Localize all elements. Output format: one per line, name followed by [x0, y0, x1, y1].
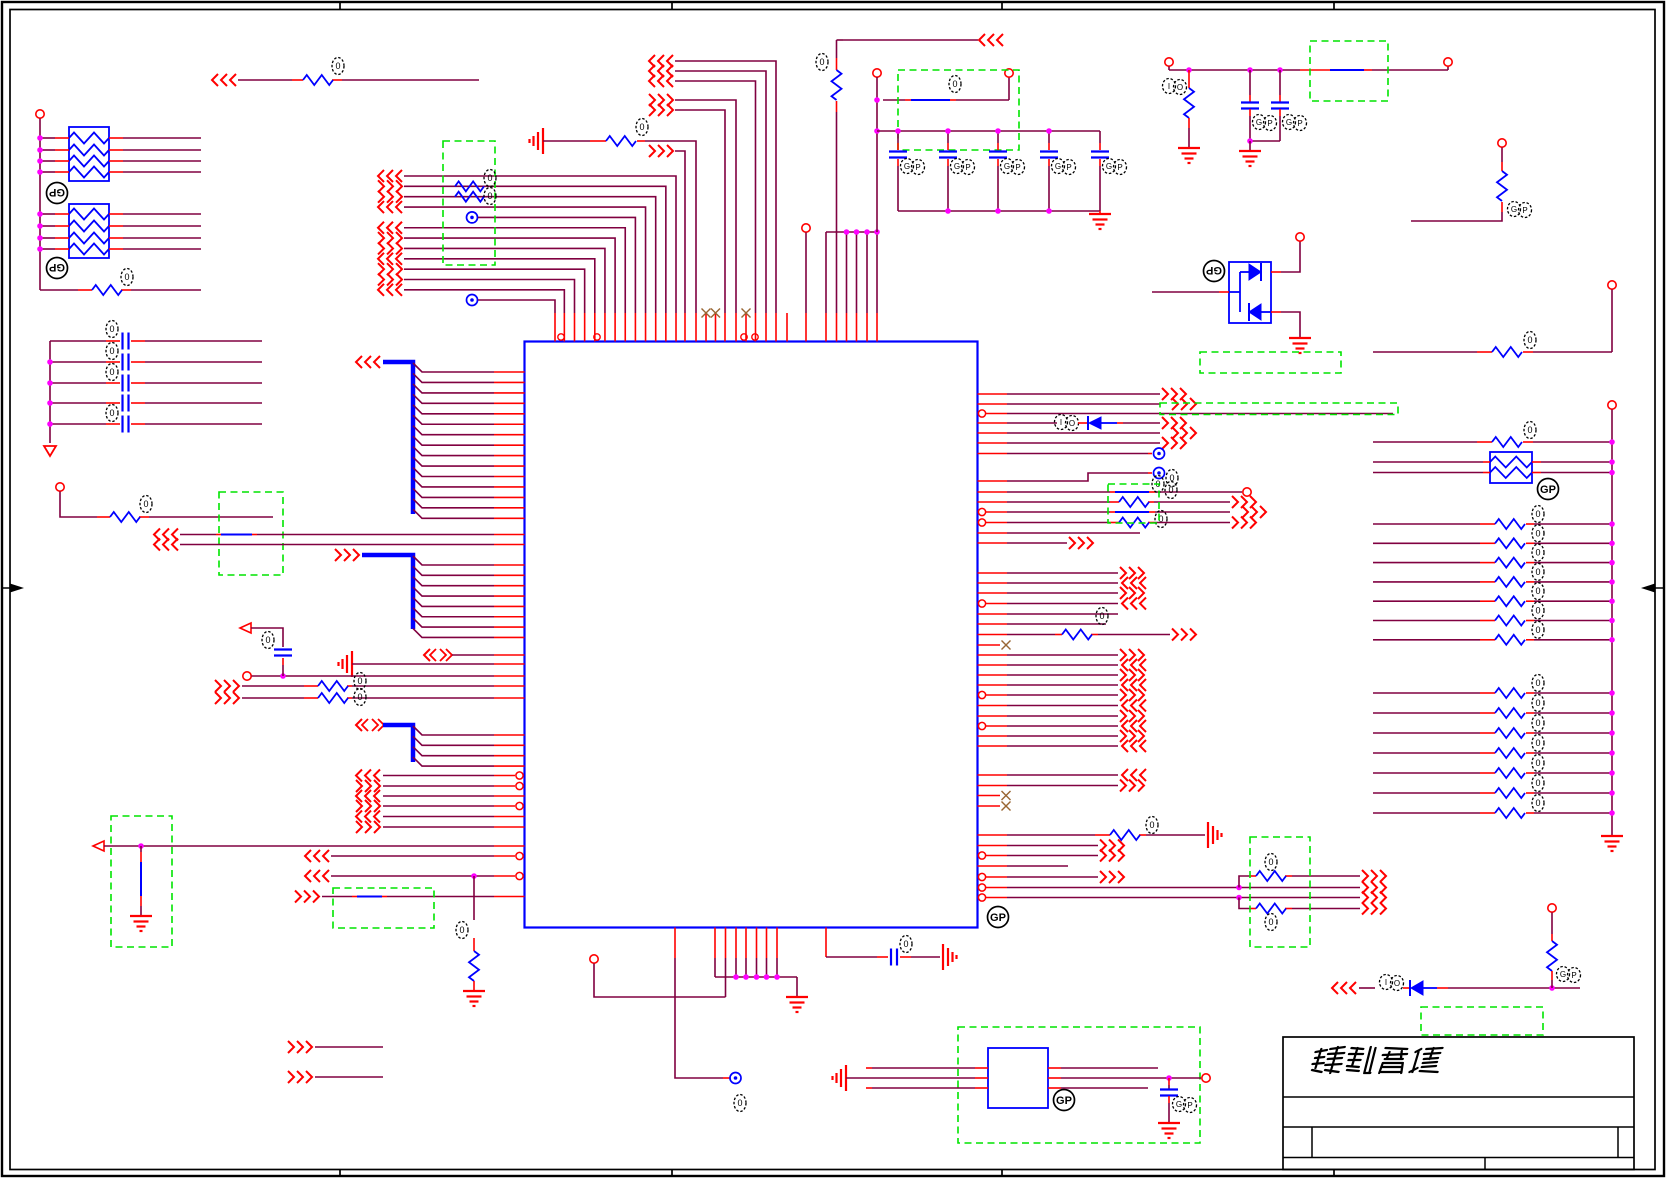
wire cap bank bottom bus [898, 210, 1100, 212]
wire RP2 row 1 [40, 213, 55, 215]
resistor RP2 element 4 [69, 244, 109, 255]
terminal x1448 [1444, 58, 1452, 66]
resistor R_pulldown [469, 951, 479, 981]
wire bus bottom row [40, 289, 78, 291]
wire RP2 row 2 [40, 225, 55, 227]
wire right g3 row 3 [1373, 732, 1480, 734]
wire bus1 tap 13 [413, 488, 494, 497]
capacitor C_l4 [121, 395, 123, 412]
off-page connector top row y71 [649, 65, 655, 77]
wire RP1 row 3 [40, 160, 55, 162]
wire top row y61 [675, 61, 776, 313]
resistor R_topleft [303, 75, 333, 85]
resistor RP3 element 1 [1490, 457, 1532, 468]
wire cluster pin x867 [866, 232, 868, 313]
wire to ground x1250 [1249, 141, 1251, 150]
wire R_x1502 [1501, 148, 1503, 163]
label R_r835 [1146, 817, 1158, 834]
svg-text:O: O [1069, 419, 1075, 428]
wire bottom pin x777 [776, 928, 778, 959]
wire left cluster row 4 [383, 805, 494, 807]
resistor R_x1502 [1497, 171, 1507, 201]
wire right row 583 [978, 582, 1008, 584]
label R_br876 [1265, 854, 1277, 871]
capacitor C1 [889, 150, 907, 152]
wire bottom pin x675 long [674, 928, 676, 959]
frame zone ticks bottom [339, 1170, 341, 1177]
wire net y100 [883, 99, 905, 101]
wire right row 855 [978, 852, 985, 859]
title block company name text [1310, 1047, 1443, 1073]
junction RP1 row 2 [37, 147, 43, 153]
wire left row A [180, 534, 216, 536]
wire right g2 row 6 [1373, 620, 1480, 622]
capacitor C_l5 [121, 416, 123, 433]
wire row 664 [352, 663, 494, 665]
wire right g3 row 4 [1373, 752, 1480, 754]
wire stair row 12 [404, 290, 564, 313]
wire bl2 [315, 1076, 383, 1078]
wire bottom pin x746 [745, 928, 747, 959]
terminal osc out [1202, 1074, 1210, 1082]
wire RP1 row 1 [40, 137, 55, 139]
off-page connector left cluster row 5 [356, 811, 362, 823]
svg-text:P: P [915, 163, 920, 172]
wire bus2 tap 5 [413, 597, 494, 606]
labels row 492 [1152, 476, 1164, 493]
off-page connector stair row 3 [378, 191, 384, 203]
wire pullup lower [1551, 971, 1553, 980]
junction cap row 2 [47, 359, 53, 365]
junction RP2 row 1 [37, 211, 43, 217]
wire top resistor row [543, 140, 590, 142]
wire right g3 row 1 [1373, 692, 1480, 694]
wire right row 746 [978, 745, 1008, 747]
off-page connector row 603.5 [1122, 598, 1128, 610]
wire bracket up 876 [1239, 876, 1250, 888]
socket x735 [730, 1073, 741, 1084]
wire right row 887 [978, 884, 985, 891]
wire right row 675 [978, 674, 1008, 676]
diode D_r423 [1089, 417, 1101, 429]
capacitor C_x1250 [1249, 70, 1251, 95]
resistor R_lrow2 [318, 693, 348, 703]
svg-text:0: 0 [265, 635, 270, 645]
svg-text:0: 0 [459, 925, 464, 935]
wire right g2 row 7 [1373, 639, 1480, 641]
label R_g2_4 [1532, 563, 1544, 580]
wire right row 522 [978, 519, 985, 526]
wire right row 655 [978, 654, 1008, 656]
svg-text:G: G [1286, 118, 1292, 127]
wire RP1 row 4 [40, 171, 55, 173]
wire right row 624 [978, 623, 1008, 625]
no-connect row 806 [978, 805, 1001, 807]
wire TVS top out [1271, 271, 1281, 273]
resistor R_stair1 [455, 181, 484, 191]
no-connect row 645 [978, 644, 1001, 646]
power arrow row 846 [93, 841, 104, 851]
resistor R_r522 [1119, 518, 1149, 528]
ground R_x1189 [1178, 147, 1200, 149]
wire row 897 [322, 896, 352, 898]
junction cap top C4 [1046, 128, 1052, 134]
off-page connector row 573 [1120, 567, 1126, 579]
svg-text:G: G [954, 162, 960, 171]
wire right g3 row 2 [1373, 712, 1480, 714]
junction gnd x1250 [1247, 138, 1253, 144]
wire x877 vertical [876, 77, 878, 232]
off-page connector row 394 [1162, 388, 1168, 400]
wire right g2 row 4 [1373, 581, 1480, 583]
svg-text:0: 0 [109, 367, 114, 377]
pin circle row 2 [516, 782, 523, 789]
off-page connector top row y110 [649, 104, 655, 116]
junction cluster x877 [874, 229, 880, 235]
wire gnd branch 141 [140, 846, 142, 852]
wire right row 775 [978, 774, 1008, 776]
label R_x1189 [1163, 79, 1176, 94]
resistor RP2 element 1 [69, 209, 109, 220]
off-page connector row 736 [1120, 730, 1126, 742]
off-page connector top row y81 [649, 75, 655, 87]
svg-text:0: 0 [109, 346, 114, 356]
resistor R_r442 [1492, 437, 1522, 447]
off-page connector row 634 [1172, 629, 1178, 641]
resistor R_g2_7 [1495, 635, 1525, 645]
ground x1250 [1239, 150, 1261, 152]
off-page connector row 877 [1100, 871, 1106, 883]
wire top row y71 [675, 71, 766, 313]
svg-text:0: 0 [1149, 820, 1154, 830]
capacitor C_branch [274, 648, 292, 650]
wire bus1 tap 7 [413, 426, 494, 435]
junction cluster x867 [864, 229, 870, 235]
designator Y1 GP [1054, 1090, 1075, 1111]
wire osc right top [1048, 1067, 1061, 1069]
svg-text:0: 0 [1535, 798, 1540, 808]
wire cap C4 legs [1048, 131, 1050, 143]
terminal pin x806 [802, 224, 810, 232]
off-page connector row 655 [1120, 649, 1126, 661]
off-page connector left row B [154, 539, 160, 551]
label cap C_l3 [106, 364, 118, 381]
capacitor C_osc [1160, 1088, 1178, 1090]
junction x877 y131 [874, 128, 880, 134]
placement box row 897 [333, 888, 434, 928]
junction right g3 row 2 [1609, 710, 1615, 716]
ground osc cap [1158, 1122, 1180, 1124]
ground pulldown [463, 990, 485, 992]
junction cap bottom [1046, 208, 1052, 214]
placement box left-bottom [111, 816, 172, 947]
resistor R_br876 [1256, 871, 1286, 881]
wire bottom diode stub [1403, 987, 1410, 989]
resistor R_g3_1 [1495, 688, 1525, 698]
off-page connector row 502 [1232, 496, 1238, 508]
terminal x594 [590, 955, 598, 963]
junction right row 442 [1609, 439, 1615, 445]
wire cap row 2 [50, 361, 106, 363]
wire right row 897 [978, 894, 985, 901]
placement box left-mid [219, 492, 283, 575]
resistor R_lrow1 [318, 681, 348, 691]
wire bottom pin x725 long [725, 928, 727, 959]
label C_x1250 [1253, 115, 1266, 130]
svg-text:0: 0 [357, 692, 362, 702]
wire cap-bank bus vertical [49, 341, 51, 443]
svg-text:0: 0 [903, 939, 908, 949]
placement box right mid [1108, 484, 1159, 523]
resistor RP1 element 2 [69, 145, 109, 156]
wire bus2 tap 2 [413, 566, 494, 575]
junction right g3 row 4 [1609, 750, 1615, 756]
wire right row 443 [978, 442, 1008, 444]
off-page connector stair row 7 [378, 232, 384, 244]
svg-text:0: 0 [1535, 698, 1540, 708]
wire bus1 tap 4 [413, 394, 494, 403]
label cap C_l1 [106, 321, 118, 338]
wire bottom pin x736 [735, 928, 737, 959]
off-page connector row 443 [1162, 437, 1168, 449]
label cap C_l2 [106, 343, 118, 360]
svg-text:0: 0 [487, 173, 492, 183]
off-page connector row 785 [1120, 780, 1126, 792]
label diode row 423 [1055, 415, 1068, 430]
power arrow cap branch [240, 623, 251, 633]
wire osc left top [866, 1067, 872, 1069]
wire top row y110 [675, 110, 725, 313]
svg-text:0: 0 [1535, 778, 1540, 788]
label ferrite y100 [949, 76, 961, 93]
off-page connector row 775 [1122, 769, 1128, 781]
resistor R_leftmid [110, 512, 140, 522]
wire cap C3 legs [997, 131, 999, 143]
svg-text:G: G [1176, 1100, 1182, 1109]
resistor RP3 element 2 [1490, 467, 1532, 478]
svg-text:G: G [1004, 162, 1010, 171]
wire right row 423 cont [1117, 422, 1123, 424]
svg-text:0: 0 [1535, 528, 1540, 538]
label C2 [951, 159, 964, 174]
label R_r442 [1524, 422, 1536, 439]
terminal pullup [1548, 904, 1556, 912]
wire stair row 5 [478, 217, 635, 313]
placement box oscillator [958, 1027, 1200, 1143]
wire osc cap lower [1168, 1096, 1170, 1103]
pin circle row 4 [516, 802, 523, 809]
wire right row 634 [978, 634, 1008, 636]
resistor R_g3_2 [1495, 708, 1525, 718]
svg-text:0: 0 [1099, 611, 1104, 621]
pin stub x787 [786, 313, 788, 342]
resistor RP2 element 2 [69, 221, 109, 232]
resistor R_g3_7 [1495, 808, 1525, 818]
socket row 300 [467, 295, 478, 306]
resistor RP2 element 3 [69, 233, 109, 244]
off-page connector row 675 [1120, 669, 1126, 681]
resistor R_r352 [1492, 347, 1522, 357]
wire right g3 row 5 [1373, 772, 1480, 774]
label R_stair1 [484, 170, 496, 187]
off-page connector top row y100 [649, 94, 655, 106]
junction RP2 row 4 [37, 246, 43, 252]
wire right row 593 [978, 592, 1008, 594]
svg-text:0: 0 [1268, 857, 1273, 867]
off-page connector row 522 [1232, 517, 1238, 529]
resistor R_r634 [1062, 630, 1092, 640]
resistor R_g3_3 [1495, 728, 1525, 738]
junction right g2 row 3 [1609, 560, 1615, 566]
off-page connector left cluster row 3 [356, 790, 362, 802]
off-page connector row 433 [1172, 427, 1178, 439]
ground sideways osc mid [845, 1065, 847, 1091]
svg-text:P: P [1571, 971, 1576, 980]
wire right row 573 [978, 572, 1008, 574]
wire stair row 6 [404, 228, 625, 313]
off-page connector bus2 left [335, 549, 341, 561]
title block outline [1283, 1037, 1634, 1170]
ground cap bank [1099, 211, 1101, 213]
wire left cluster row 6 [383, 826, 494, 828]
junction RP2 row 2 [37, 223, 43, 229]
wire bus1 tap 5 [413, 405, 494, 414]
svg-text:P: P [1297, 119, 1302, 128]
wire right row 502 [978, 501, 1008, 503]
junction cap top C3 [995, 128, 1001, 134]
off-page connector row 716 [1120, 710, 1126, 722]
off-page connector top-left [212, 74, 218, 86]
wire stair row 3 [404, 197, 656, 313]
wire net top-left row [238, 79, 292, 81]
terminal VCC left resistor-pack bus [36, 110, 44, 118]
off-page connector stair row 12 [378, 284, 384, 296]
label R_g2_5 [1532, 583, 1544, 600]
off-page connector resistor row 1 [215, 680, 221, 692]
junction right g2 row 7 [1609, 637, 1615, 643]
svg-text:I: I [1168, 82, 1170, 91]
wire bottom diode net [1359, 987, 1375, 989]
wire right g3 row 6 [1373, 792, 1480, 794]
resistor R_r835 [1110, 830, 1140, 840]
svg-text:0: 0 [952, 79, 957, 89]
svg-text:0: 0 [1535, 718, 1540, 728]
svg-text:O: O [1394, 979, 1400, 988]
wire cap branch [251, 628, 283, 647]
TVS D1 internal diodes [1249, 264, 1261, 280]
svg-text:0: 0 [1535, 758, 1540, 768]
wire top row y151 [675, 151, 685, 313]
svg-text:0: 0 [109, 408, 114, 418]
junction cluster x856.5 [854, 229, 860, 235]
bus2 thick entry [362, 555, 413, 629]
wire row 676 [252, 675, 495, 677]
junction right g2 row 1 [1609, 521, 1615, 527]
off-page connector resistor row 2 [215, 692, 221, 704]
wire osc left mid [846, 1077, 975, 1079]
label R_g2_1 [1532, 506, 1544, 523]
svg-text:0: 0 [737, 1098, 742, 1108]
off-page connector row 876r [1362, 870, 1368, 882]
terminal x1009 [1005, 69, 1013, 77]
svg-text:P: P [1117, 163, 1122, 172]
resistor R_br908 [1256, 904, 1286, 914]
label C3 [1001, 159, 1014, 174]
wire pin x806 [805, 233, 807, 314]
resistor RP1 element 4 [69, 167, 109, 178]
wire cap row 3 [50, 382, 106, 384]
label C4 [1052, 159, 1065, 174]
wire TVS bottom out [1271, 311, 1281, 313]
off-page connector row 876 [305, 870, 311, 882]
label C_osc [1173, 1097, 1186, 1112]
off-page connector stair row 6 [378, 222, 384, 234]
junction right g3 row 3 [1609, 730, 1615, 736]
wire resistor row 2 [242, 697, 304, 699]
junction bottom x766.5 [764, 974, 770, 980]
label R_lrow2 [354, 689, 366, 706]
capacitor C3 [989, 150, 1007, 152]
wire bottom bus y977 [715, 976, 797, 978]
label R_g3_3 [1532, 715, 1544, 732]
resistor R_g2_5 [1495, 596, 1525, 606]
label C_branch [262, 632, 274, 649]
svg-text:0: 0 [1535, 509, 1540, 519]
off-page connector left cluster row 6 [356, 821, 362, 833]
wire right col segment A [1611, 290, 1613, 353]
off-page connector row 423 [1162, 417, 1168, 429]
wire osc cap leg [1168, 1078, 1170, 1085]
resistor R_g3_4 [1495, 748, 1525, 758]
resistor R_top [606, 136, 636, 146]
resistor R_g3_5 [1495, 768, 1525, 778]
wire bracket down 908 [1239, 898, 1250, 909]
wire right g2 row 3 [1373, 562, 1480, 564]
no-connect row 795 [978, 795, 1001, 797]
wire bottom bus to ground [796, 977, 798, 996]
wire RP3 row 1 [1373, 461, 1483, 463]
no-connect pin x706 [705, 313, 707, 342]
wire pulldown lower [473, 981, 475, 990]
wire right row 423 diode net [978, 422, 1008, 424]
terminal left RC row [56, 483, 64, 491]
svg-text:0: 0 [1535, 606, 1540, 616]
wire right row 865 [978, 865, 1008, 867]
terminal x877 [873, 69, 881, 77]
off-page connector row 583 [1122, 577, 1128, 589]
svg-text:0: 0 [1535, 625, 1540, 635]
wire bus3 tap 3 [413, 747, 494, 756]
svg-text:P: P [1267, 119, 1272, 128]
off-page connector row 655 [424, 649, 430, 661]
junction bottom diode [1549, 985, 1555, 991]
label R_top [636, 119, 648, 136]
label bottom diode [1380, 975, 1393, 990]
wire pullup upper [1551, 913, 1553, 935]
designator RP3 GP [1538, 479, 1559, 500]
off-page connector stair row 5 [467, 212, 478, 223]
wire bus2 tap 7 [413, 618, 494, 627]
label pullup [1557, 967, 1570, 982]
label C_x1280 [1283, 115, 1296, 130]
placement box top caps [898, 70, 1019, 150]
off-page connector left cluster row 4 [356, 800, 362, 812]
off-page connector row 746 [1122, 740, 1128, 752]
off-page connector row 897r [1362, 892, 1368, 904]
off-page connector row 856 [305, 850, 311, 862]
label row 624 [1096, 608, 1108, 625]
capacitor C5 [1091, 150, 1109, 152]
